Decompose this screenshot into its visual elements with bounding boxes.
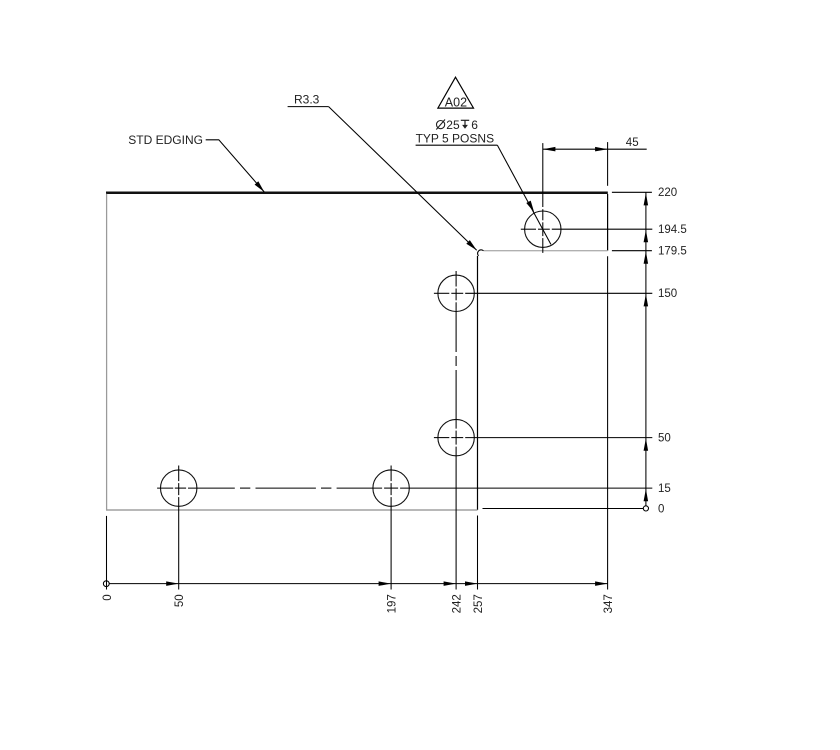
svg-text:179.5: 179.5 <box>658 246 687 258</box>
svg-text:50: 50 <box>174 594 186 607</box>
svg-text:0: 0 <box>658 503 664 515</box>
svg-text:STD EDGING: STD EDGING <box>128 133 203 147</box>
svg-text:6: 6 <box>471 118 478 132</box>
svg-text:197: 197 <box>386 594 398 613</box>
svg-text:257: 257 <box>473 594 485 613</box>
svg-text:347: 347 <box>603 594 615 613</box>
svg-text:194.5: 194.5 <box>658 224 687 236</box>
svg-text:A02: A02 <box>445 96 467 110</box>
svg-text:25: 25 <box>446 118 460 132</box>
svg-text:50: 50 <box>658 432 671 444</box>
svg-text:150: 150 <box>658 288 677 300</box>
svg-text:15: 15 <box>658 483 671 495</box>
svg-text:0: 0 <box>102 594 114 600</box>
svg-text:220: 220 <box>658 187 677 199</box>
svg-text:45: 45 <box>626 137 639 149</box>
svg-text:R3.3: R3.3 <box>294 93 320 107</box>
svg-text:242: 242 <box>452 594 464 613</box>
svg-text:TYP 5 POSNS: TYP 5 POSNS <box>416 131 494 145</box>
